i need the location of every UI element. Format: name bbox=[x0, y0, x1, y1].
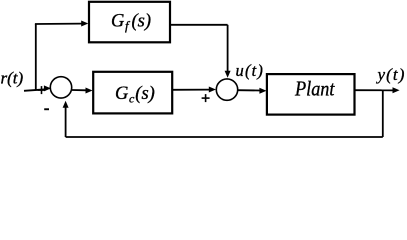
block Plant box bbox=[267, 74, 355, 115]
svg-text:Plant: Plant bbox=[294, 77, 335, 101]
wire feedback bottom run bbox=[66, 136, 383, 138]
label Gc(s) bbox=[115, 84, 155, 105]
wire down into summer S2 bbox=[227, 25, 229, 72]
minus sign below summer S1 bbox=[44, 108, 49, 110]
plus sign at summer S2 lower-left bbox=[202, 94, 210, 102]
svg-text:(s): (s) bbox=[135, 84, 155, 104]
svg-text:r(t): r(t) bbox=[1, 69, 24, 88]
wire branch from r(t) up to feedforward bbox=[35, 24, 37, 91]
wire Gc to summer S2 bbox=[172, 89, 210, 91]
svg-text:u(t): u(t) bbox=[236, 61, 265, 80]
arrowhead down into summer S2 bbox=[225, 71, 231, 78]
arrowhead into summer S2 bbox=[209, 87, 216, 93]
arrowhead into Gf bbox=[81, 21, 88, 27]
wire Plant output to y(t) bbox=[355, 89, 394, 91]
wire feedback up into summer S1 bbox=[65, 107, 67, 137]
svg-text:G: G bbox=[111, 12, 124, 32]
plus sign at summer S1 input bbox=[38, 86, 46, 94]
wire summer S2 to Plant bbox=[238, 89, 261, 91]
wire Gf output to corner bbox=[170, 24, 228, 26]
arrowhead output y(t) bbox=[393, 87, 400, 93]
summer S1 circle bbox=[50, 77, 71, 98]
wire top branch to Gf bbox=[35, 23, 82, 25]
block Gc controller box bbox=[93, 72, 172, 114]
svg-text:c: c bbox=[129, 91, 135, 105]
wire r(t) to summer S1 bbox=[24, 89, 46, 91]
arrowhead into Plant bbox=[259, 88, 266, 94]
label Gf(s) bbox=[111, 12, 151, 34]
wire feedback branch down bbox=[382, 90, 384, 137]
summer S2 circle bbox=[216, 79, 237, 100]
wire summer S1 to Gc bbox=[72, 89, 87, 91]
svg-text:(s): (s) bbox=[132, 12, 152, 32]
block Gf feedforward box bbox=[89, 2, 170, 43]
arrowhead into summer S1 bbox=[44, 85, 51, 91]
svg-text:y(t): y(t) bbox=[376, 65, 406, 84]
arrowhead into Gc bbox=[86, 88, 93, 94]
svg-text:G: G bbox=[115, 84, 128, 104]
arrowhead feedback into summer S1 bbox=[63, 101, 69, 108]
